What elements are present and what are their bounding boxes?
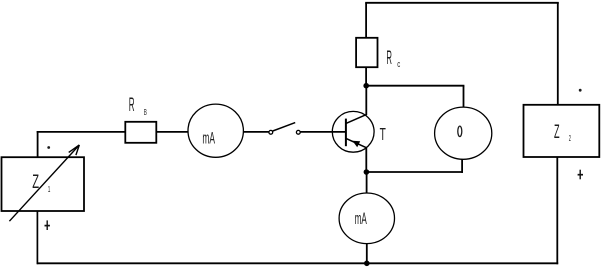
svg-text:2: 2	[569, 134, 571, 143]
junction node on bottom bus	[364, 261, 370, 267]
wire: emitter node to meter O (horizontal)	[366, 171, 463, 173]
label Rb	[129, 94, 147, 117]
svg-text:mA: mA	[355, 210, 367, 228]
variable arrow through Z1	[9, 145, 79, 221]
wire: ammeter mA2 to bottom bus	[366, 244, 368, 264]
wire: main line Z1 to Rb	[37, 131, 126, 133]
svg-text:1: 1	[48, 185, 51, 194]
minus terminal dot of Z2	[579, 89, 582, 92]
ammeter mA2 (bottom circle)	[339, 193, 394, 244]
plus terminal of Z1	[45, 220, 50, 230]
plus terminal of Z2	[578, 170, 583, 180]
svg-text:R: R	[129, 94, 135, 116]
label T	[380, 124, 386, 144]
wire: collector vertical (node to transistor)	[365, 86, 367, 116]
wire: switch to transistor base	[300, 131, 346, 133]
svg-text:Z: Z	[554, 121, 560, 143]
wire: ammeter mA1 to switch	[243, 131, 269, 133]
impedance Z2 (box)	[524, 105, 600, 157]
wire: right vertical from top bus down to Z2	[557, 3, 559, 106]
wire: meter O bottom vertical	[461, 159, 463, 173]
meter O (voltmeter circle)	[435, 107, 492, 159]
svg-text:Z: Z	[32, 171, 39, 193]
ammeter mA1 (circle on main line)	[188, 104, 243, 157]
wire: emitter vertical down to node	[365, 148, 367, 173]
resistor Rb (box)	[125, 122, 156, 143]
junction node: emitter / meter O bottom / ammeter top	[364, 169, 370, 175]
label 0 inside meter O	[458, 126, 462, 136]
wire: node to meter O (horizontal)	[366, 85, 464, 87]
wire: Rc bottom to collector node	[365, 67, 367, 86]
impedance Z1 (box)	[2, 157, 85, 211]
wire: left vertical from bus up to Z1	[36, 211, 38, 265]
svg-text:mA: mA	[202, 129, 215, 147]
label mA (bottom meter)	[355, 210, 367, 228]
wire: down into meter O top	[463, 86, 465, 108]
svg-text:B: B	[144, 108, 147, 117]
svg-text:c: c	[397, 59, 400, 69]
wire: Z2 bottom vertical down to bus	[556, 157, 558, 264]
wire: top horizontal bus	[365, 2, 559, 4]
minus terminal dot of Z1	[47, 146, 50, 149]
transistor T (PNP)	[332, 111, 374, 152]
wire: vertical from top bus down to Rc	[365, 3, 367, 39]
svg-text:T: T	[380, 124, 386, 144]
wire: Z1 top vertical up to main line	[37, 131, 39, 157]
svg-text:R: R	[386, 47, 392, 69]
wire: Rb to ammeter mA1	[156, 131, 188, 133]
label Rc	[386, 47, 400, 69]
wire: bottom bus horizontal	[37, 262, 558, 264]
wire: node down to ammeter mA2	[366, 172, 368, 194]
label Z1	[32, 171, 51, 194]
junction node: collector / Rc / meter O top	[363, 83, 369, 89]
switch S (open)	[269, 123, 300, 135]
label mA (left meter)	[202, 129, 215, 147]
resistor Rc (box)	[356, 38, 377, 67]
label Z2	[554, 121, 571, 143]
